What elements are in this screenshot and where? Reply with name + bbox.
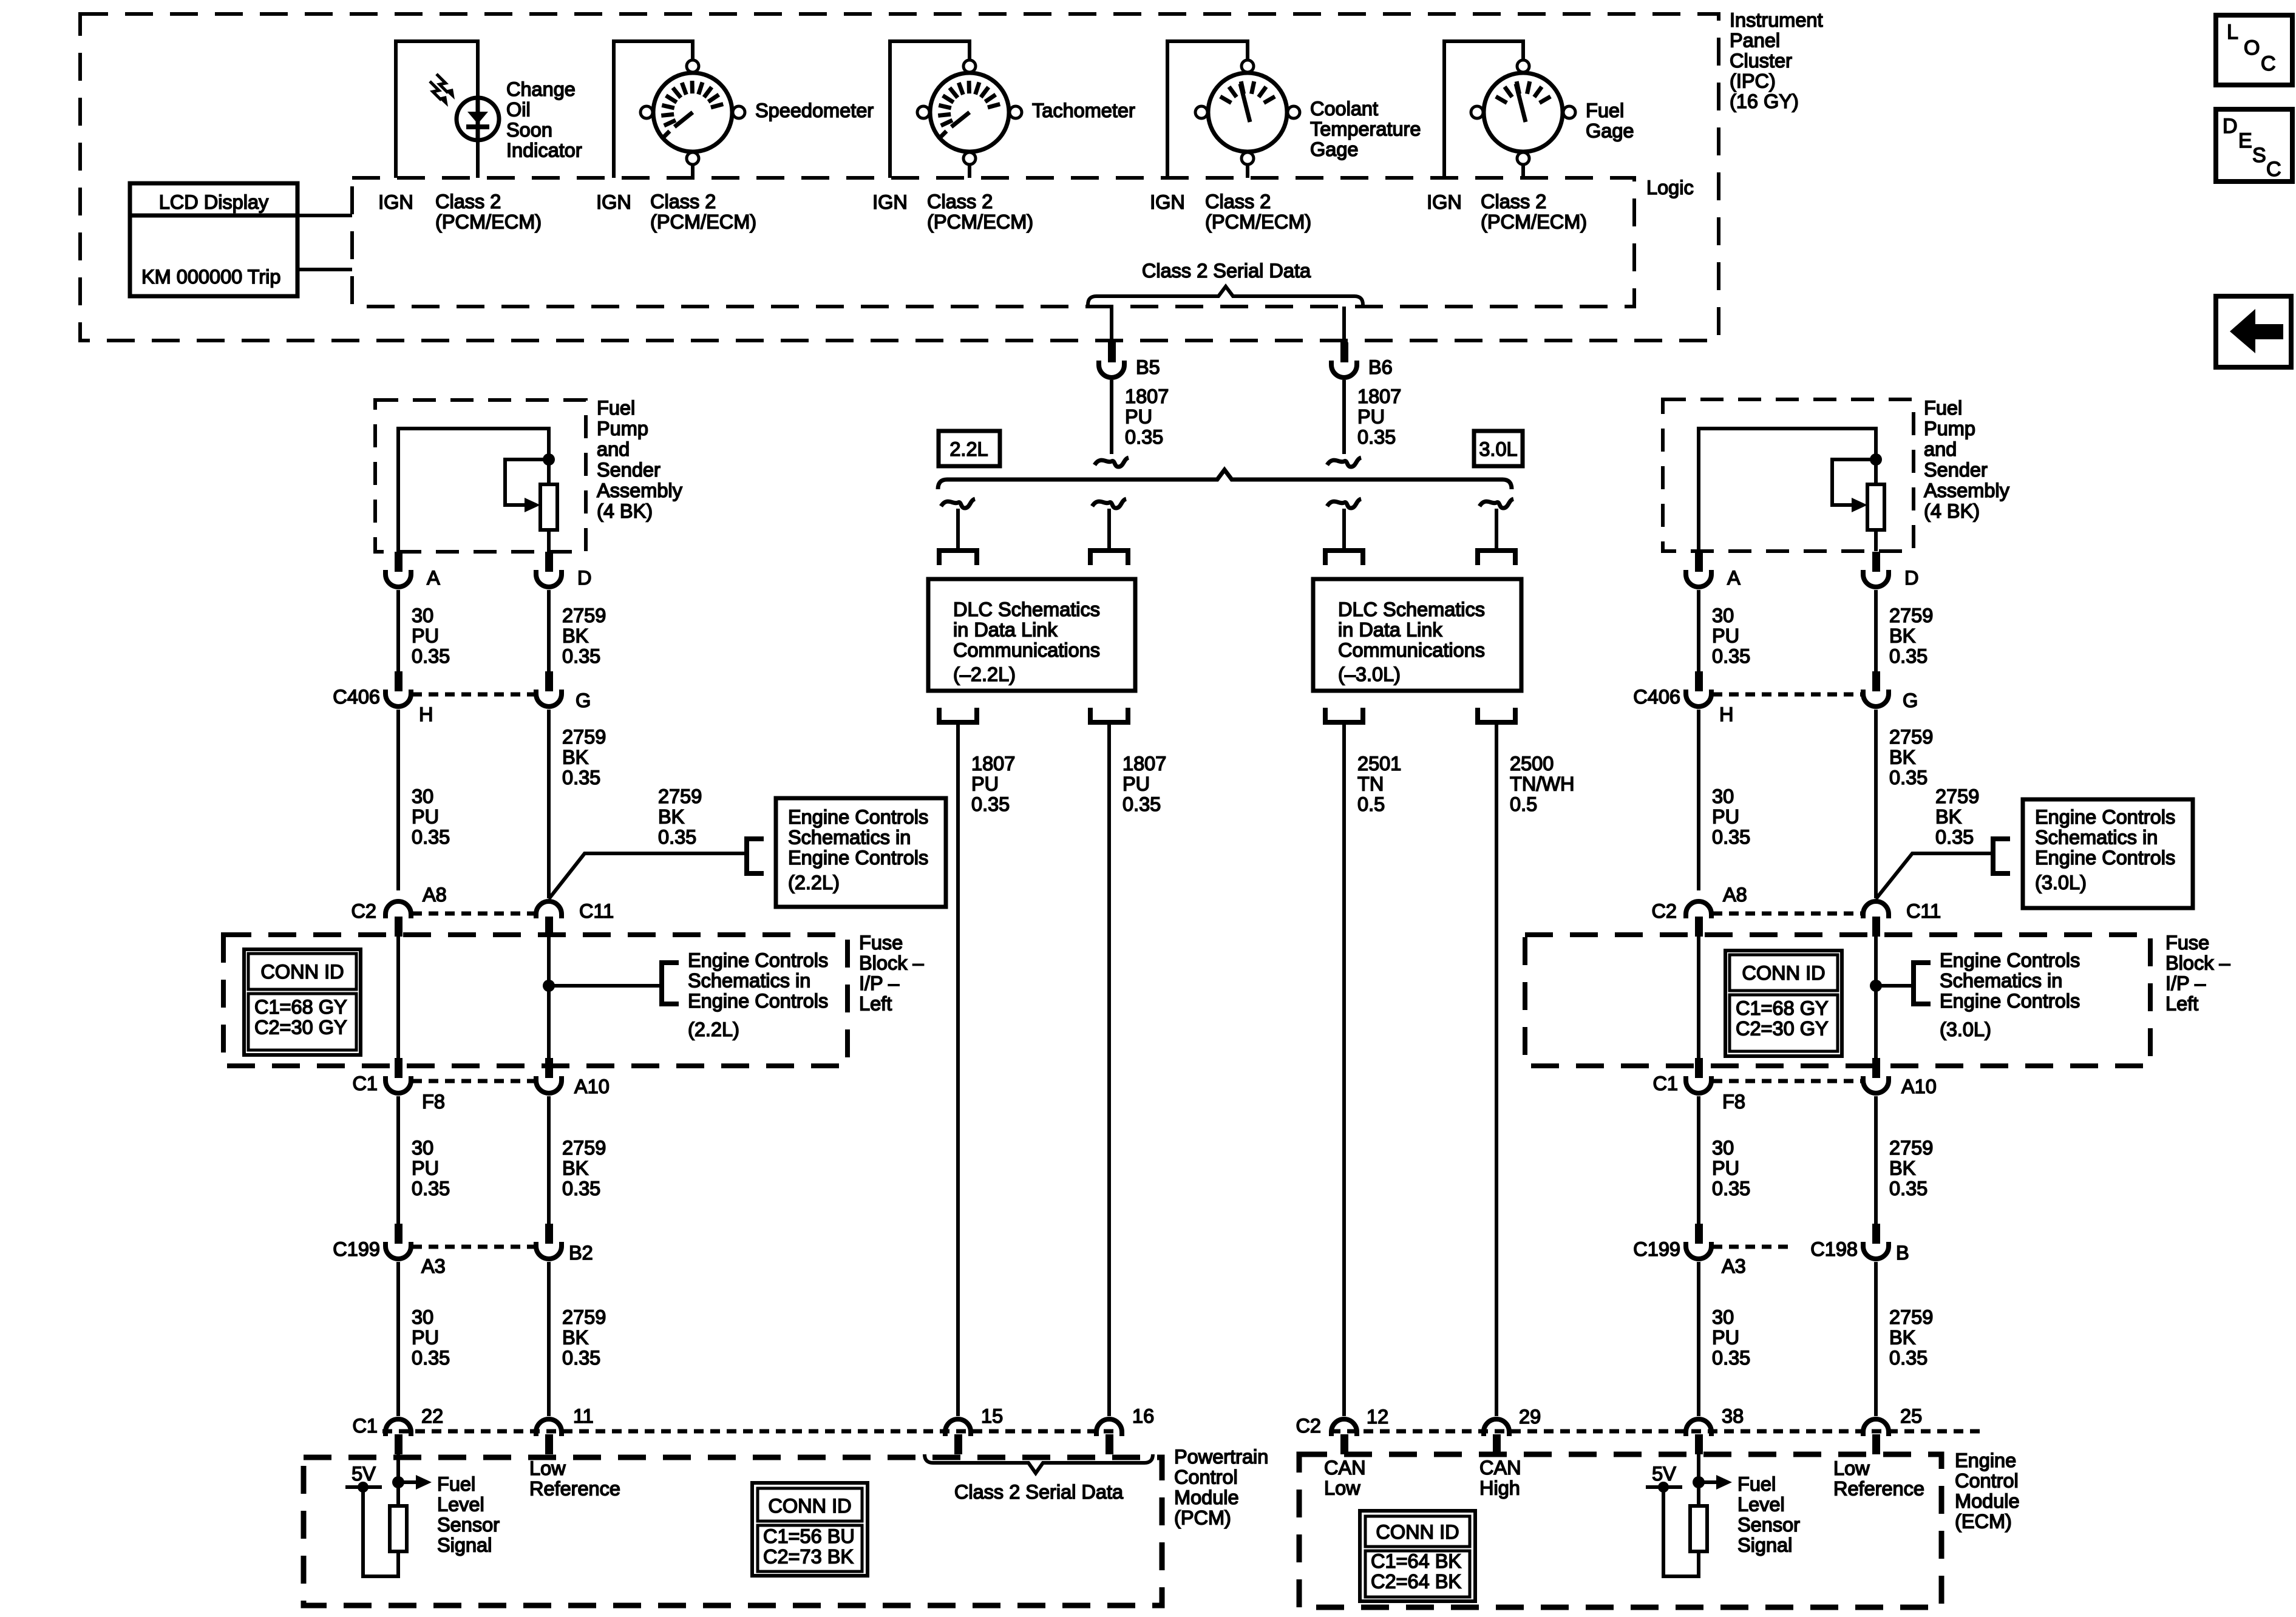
splice squiggle below B5 bbox=[1095, 458, 1129, 467]
svg-text:11: 11 bbox=[573, 1405, 594, 1427]
svg-text:IGN: IGN bbox=[1427, 191, 1462, 213]
svg-text:30: 30 bbox=[1712, 1137, 1734, 1159]
svg-text:BK: BK bbox=[562, 625, 589, 647]
wire 30 PU 0.35 (F8 to C199) bbox=[1697, 1096, 1700, 1224]
svg-text:Engine Controls: Engine Controls bbox=[688, 949, 828, 971]
junction dot to engine controls schematics bbox=[1870, 980, 1882, 992]
wire 30 PU 0.35 (A3 to module) bbox=[1697, 1262, 1700, 1416]
svg-text:(ECM): (ECM) bbox=[1955, 1511, 2012, 1533]
svg-text:Pump: Pump bbox=[1924, 418, 1975, 439]
wire squiggle to DLC bracket (CAN high) bbox=[1495, 509, 1498, 549]
svg-text:D: D bbox=[1904, 567, 1918, 589]
svg-text:(PCM/ECM): (PCM/ECM) bbox=[927, 211, 1033, 233]
fine dashed connector line at PCM pins bbox=[382, 1429, 1123, 1434]
svg-text:C2=30 GY: C2=30 GY bbox=[254, 1017, 347, 1039]
wire 2759 BK 0.35 (G to C11) bbox=[547, 710, 551, 898]
svg-text:C1=64 BK: C1=64 BK bbox=[1371, 1550, 1461, 1572]
svg-text:Engine Controls: Engine Controls bbox=[2035, 806, 2175, 828]
svg-text:C198: C198 bbox=[1810, 1238, 1858, 1260]
connector C1 pin A10 bbox=[545, 1058, 553, 1078]
svg-text:Class 2: Class 2 bbox=[435, 191, 501, 212]
svg-text:Schematics in: Schematics in bbox=[788, 827, 911, 849]
svg-text:PU: PU bbox=[1712, 1327, 1739, 1349]
svg-text:BK: BK bbox=[1889, 1327, 1916, 1349]
svg-text:H: H bbox=[1719, 703, 1733, 725]
back arrow box bbox=[2216, 296, 2291, 367]
Fuse Block - I/P - Left dashed box bbox=[1525, 935, 2150, 1066]
svg-text:Assembly: Assembly bbox=[1924, 480, 2010, 501]
wire 30 PU 0.35 (H to C2) bbox=[396, 710, 400, 890]
svg-text:Sensor: Sensor bbox=[437, 1514, 500, 1536]
wire IGN loop for speedometer bbox=[612, 41, 616, 178]
CONN ID box (fuse block) bbox=[1725, 951, 1842, 1056]
wire 1807 PU 0.35 from B5 bbox=[1110, 380, 1113, 454]
svg-text:Engine Controls: Engine Controls bbox=[688, 990, 828, 1012]
svg-text:A3: A3 bbox=[1722, 1255, 1746, 1277]
svg-text:(PCM/ECM): (PCM/ECM) bbox=[650, 211, 756, 233]
svg-text:12: 12 bbox=[1367, 1406, 1388, 1428]
svg-text:BK: BK bbox=[562, 1327, 589, 1349]
Fuse Block - I/P - Left dashed box bbox=[223, 935, 847, 1066]
svg-text:Left: Left bbox=[2165, 993, 2198, 1015]
connector C2 pin C11 bbox=[545, 917, 553, 937]
wire squiggle to DLC bracket (class 2 serial data (16)) bbox=[1107, 509, 1111, 549]
wire from fuel gage bottom bbox=[1521, 164, 1525, 178]
svg-text:I/P –: I/P – bbox=[859, 972, 900, 994]
sender potentiometer bbox=[1867, 484, 1884, 530]
wire squiggle to DLC bracket (class 2 serial data (15)) bbox=[956, 509, 960, 549]
svg-text:CONN ID: CONN ID bbox=[1376, 1521, 1459, 1543]
Fuel Pump and Sender Assembly dashed box bbox=[375, 400, 586, 552]
svg-text:Fuel: Fuel bbox=[1586, 100, 1624, 121]
junction dot to engine controls schematics bbox=[543, 980, 555, 992]
wire 2759 BK 0.35 (G to C11) bbox=[1874, 710, 1878, 898]
svg-text:C1: C1 bbox=[352, 1073, 378, 1094]
svg-text:1807: 1807 bbox=[971, 753, 1015, 775]
5V supply rail bbox=[1646, 1485, 1682, 1489]
svg-text:0.35: 0.35 bbox=[1357, 426, 1396, 448]
wire IGN loop for coolant temperature gage bbox=[1166, 41, 1169, 178]
wire 30 PU 0.35 (F8 to C199) bbox=[396, 1096, 400, 1224]
splice squiggle column class 2 serial data (16) bbox=[1092, 499, 1126, 508]
connector C199 dashed line bbox=[1713, 1245, 1792, 1249]
svg-text:25: 25 bbox=[1900, 1405, 1922, 1427]
svg-text:Engine Controls: Engine Controls bbox=[2035, 847, 2175, 869]
svg-text:C11: C11 bbox=[1906, 900, 1941, 922]
svg-text:29: 29 bbox=[1519, 1406, 1541, 1428]
svg-text:0.35: 0.35 bbox=[1125, 426, 1163, 448]
wire 30 PU 0.35 (A3 to module) bbox=[396, 1262, 400, 1416]
svg-text:TN/WH: TN/WH bbox=[1510, 773, 1575, 795]
wire 1807 PU 0.35 to module (class 2 serial data (16)) bbox=[1107, 722, 1111, 1416]
svg-text:0.35: 0.35 bbox=[412, 645, 450, 667]
wire 2500 TN/WH 0.5 to module (CAN high) bbox=[1495, 722, 1498, 1416]
svg-text:0.35: 0.35 bbox=[412, 1347, 450, 1369]
svg-text:0.5: 0.5 bbox=[1510, 793, 1537, 815]
connector C406 dashed line bbox=[1713, 693, 1862, 697]
svg-text:(PCM): (PCM) bbox=[1174, 1507, 1231, 1529]
svg-text:BK: BK bbox=[562, 747, 589, 768]
svg-text:B5: B5 bbox=[1136, 356, 1160, 378]
svg-text:Fuse: Fuse bbox=[859, 932, 903, 954]
svg-text:PU: PU bbox=[1123, 773, 1150, 795]
wire resistor return loop to 5V bbox=[363, 1487, 398, 1576]
splice squiggle column CAN high bbox=[1479, 499, 1513, 508]
svg-text:(2.2L): (2.2L) bbox=[688, 1019, 739, 1040]
svg-text:B: B bbox=[1896, 1242, 1909, 1264]
bracket to Engine Controls label (fuse block) bbox=[1914, 963, 1931, 1004]
connector C1 pin A10 bbox=[1872, 1058, 1880, 1078]
svg-text:PU: PU bbox=[1712, 806, 1739, 828]
svg-text:Sensor: Sensor bbox=[1737, 1514, 1800, 1536]
bracket into DLC box (class 2 serial data (16)) bbox=[1090, 551, 1128, 565]
svg-text:0.35: 0.35 bbox=[1889, 1347, 1927, 1369]
wire inside fuel pump assembly bbox=[1697, 429, 1700, 551]
svg-text:Tachometer: Tachometer bbox=[1032, 100, 1135, 121]
svg-text:Sender: Sender bbox=[597, 459, 661, 481]
bracket to Engine Controls label (fuse block) bbox=[662, 963, 679, 1004]
svg-text:BK: BK bbox=[1935, 806, 1962, 828]
wire to tachometer top bbox=[968, 41, 971, 60]
bracket into DLC box (CAN high) bbox=[1478, 551, 1515, 565]
svg-text:Engine Controls: Engine Controls bbox=[788, 847, 928, 869]
svg-text:C1: C1 bbox=[352, 1415, 378, 1437]
CONN ID box (PCM) bbox=[752, 1483, 868, 1576]
svg-text:PU: PU bbox=[1712, 1158, 1739, 1179]
svg-text:C1=68 GY: C1=68 GY bbox=[254, 996, 347, 1018]
connector pin A bbox=[395, 552, 402, 572]
svg-text:1807: 1807 bbox=[1123, 753, 1166, 775]
wire below potentiometer bbox=[547, 530, 551, 552]
arrow fuel level sensor signal bbox=[1699, 1480, 1719, 1484]
module pin 22 bbox=[395, 1434, 402, 1454]
sender potentiometer bbox=[540, 484, 557, 530]
svg-text:PU: PU bbox=[1125, 406, 1152, 428]
svg-text:1807: 1807 bbox=[1125, 385, 1169, 407]
svg-text:Sender: Sender bbox=[1924, 459, 1988, 481]
svg-text:2759: 2759 bbox=[562, 1137, 606, 1159]
engine variant box 2.2L bbox=[939, 431, 1000, 466]
svg-text:Control: Control bbox=[1955, 1470, 2019, 1492]
wire LCD to logic box (lower) bbox=[297, 268, 352, 271]
svg-text:BK: BK bbox=[1889, 1158, 1916, 1179]
sender wiper loop and arrow bbox=[505, 459, 549, 505]
svg-text:Schematics in: Schematics in bbox=[2035, 827, 2158, 849]
connector C199 pin A3 bbox=[395, 1224, 402, 1244]
svg-text:Soon: Soon bbox=[506, 119, 552, 141]
svg-text:0.35: 0.35 bbox=[412, 1178, 450, 1199]
connector C2 pin C11 bbox=[1872, 917, 1880, 937]
svg-text:0.35: 0.35 bbox=[1889, 645, 1927, 667]
svg-text:C11: C11 bbox=[579, 900, 614, 922]
svg-text:Signal: Signal bbox=[437, 1534, 492, 1556]
svg-text:0.35: 0.35 bbox=[562, 1178, 600, 1199]
connector C1 pin F8 bbox=[1695, 1058, 1703, 1078]
svg-text:Reference: Reference bbox=[1833, 1478, 1924, 1500]
svg-text:Panel: Panel bbox=[1730, 30, 1780, 52]
svg-text:PU: PU bbox=[1712, 625, 1739, 647]
svg-text:0.35: 0.35 bbox=[1123, 793, 1161, 815]
bracket below DLC box (class 2 serial data (16)) bbox=[1090, 708, 1128, 722]
module pin 16 (PCM) bbox=[1106, 1434, 1113, 1454]
module pin 38 bbox=[1695, 1434, 1703, 1454]
gauge speedometer bbox=[653, 73, 732, 152]
connector pin D bbox=[1872, 552, 1880, 572]
fine dashed connector line at ECM pins bbox=[1331, 1429, 1985, 1434]
svg-text:Pump: Pump bbox=[597, 418, 648, 439]
svg-text:C2=30 GY: C2=30 GY bbox=[1736, 1018, 1829, 1040]
svg-text:DLC Schematics: DLC Schematics bbox=[953, 598, 1100, 620]
svg-text:C: C bbox=[2266, 158, 2281, 181]
svg-text:O: O bbox=[2244, 36, 2260, 59]
svg-text:D: D bbox=[2223, 115, 2238, 138]
svg-text:C1=68 GY: C1=68 GY bbox=[1736, 997, 1829, 1019]
svg-text:TN: TN bbox=[1357, 773, 1384, 795]
svg-text:22: 22 bbox=[421, 1405, 443, 1427]
wire through fuse block (signal) bbox=[396, 937, 400, 1062]
svg-text:IGN: IGN bbox=[872, 191, 908, 213]
DLC Schematics box (-2.2L) bbox=[928, 579, 1135, 691]
svg-text:Communications: Communications bbox=[1338, 639, 1485, 661]
svg-text:0.35: 0.35 bbox=[658, 826, 696, 848]
svg-text:LCD Display: LCD Display bbox=[159, 191, 269, 213]
splice squiggle column CAN low bbox=[1327, 499, 1361, 508]
svg-text:C2: C2 bbox=[351, 900, 376, 922]
wire IGN loop for tachometer bbox=[888, 41, 892, 178]
svg-text:A8: A8 bbox=[1723, 884, 1747, 906]
svg-text:(PCM/ECM): (PCM/ECM) bbox=[435, 211, 542, 233]
sensor resistor bbox=[1690, 1506, 1707, 1551]
wire 30 PU 0.35 (A to C406) bbox=[396, 590, 400, 671]
diagonal branch wire 2759 BK 0.35 to Engine Controls bbox=[1876, 853, 1993, 899]
connector C406 pin G bbox=[545, 671, 553, 691]
svg-text:I/P –: I/P – bbox=[2165, 972, 2206, 994]
bus brace (serial data bus) bbox=[938, 470, 1512, 489]
wire 2759 BK 0.35 (to module) bbox=[547, 1262, 551, 1416]
svg-text:Assembly: Assembly bbox=[597, 480, 683, 501]
svg-text:C: C bbox=[2261, 52, 2276, 75]
wire from speedometer bottom bbox=[691, 164, 695, 178]
Fuel Pump and Sender Assembly dashed box bbox=[1663, 399, 1914, 551]
svg-text:F8: F8 bbox=[1722, 1091, 1745, 1113]
wire 1807 PU 0.35 from B6 bbox=[1342, 380, 1346, 454]
svg-text:PU: PU bbox=[971, 773, 999, 795]
svg-text:Reference: Reference bbox=[529, 1478, 620, 1500]
connector C1 dashed line bbox=[412, 1079, 535, 1083]
svg-text:Engine Controls: Engine Controls bbox=[788, 806, 928, 828]
svg-text:(16 GY): (16 GY) bbox=[1730, 90, 1799, 112]
svg-text:B2: B2 bbox=[569, 1242, 593, 1264]
wire below potentiometer bbox=[1874, 530, 1878, 551]
wire pin to fuel level sensor node bbox=[396, 1454, 400, 1506]
svg-text:2759: 2759 bbox=[1935, 785, 1979, 807]
svg-text:PU: PU bbox=[412, 1327, 439, 1349]
LCD Display box bbox=[130, 183, 297, 296]
connector C199 pin A3 bbox=[1695, 1224, 1703, 1244]
gauge fuel gage bbox=[1484, 73, 1563, 152]
connector C406 dashed line bbox=[412, 693, 535, 697]
svg-text:Fuel: Fuel bbox=[1737, 1473, 1776, 1495]
wire squiggle to DLC bracket (CAN low) bbox=[1342, 509, 1346, 549]
module pin 25 bbox=[1872, 1434, 1880, 1454]
connector C406 pin H bbox=[1695, 671, 1703, 691]
svg-text:Instrument: Instrument bbox=[1730, 9, 1823, 31]
wire 30 PU 0.35 (A to C406) bbox=[1697, 590, 1700, 671]
svg-text:Cluster: Cluster bbox=[1730, 50, 1792, 72]
svg-text:H: H bbox=[419, 703, 433, 725]
svg-text:A10: A10 bbox=[574, 1076, 610, 1097]
svg-text:Engine Controls: Engine Controls bbox=[1940, 949, 2080, 971]
Powertrain Control Module (PCM) dashed box bbox=[304, 1457, 1162, 1605]
connector pin B2 bbox=[545, 1224, 553, 1244]
sender wiper loop and arrow bbox=[1832, 459, 1876, 505]
svg-text:C1=56 BU: C1=56 BU bbox=[763, 1525, 855, 1547]
svg-text:and: and bbox=[1924, 438, 1957, 460]
svg-text:2.2L: 2.2L bbox=[949, 438, 988, 460]
connector C406 pin G bbox=[1872, 671, 1880, 691]
svg-text:Module: Module bbox=[1174, 1486, 1239, 1508]
svg-text:IGN: IGN bbox=[596, 191, 631, 213]
svg-text:(4 BK): (4 BK) bbox=[1924, 500, 1980, 522]
svg-text:Level: Level bbox=[1737, 1494, 1785, 1516]
svg-text:Fuse: Fuse bbox=[2165, 932, 2209, 954]
connector pin D bbox=[545, 552, 553, 572]
DLC Schematics box (-3.0L) bbox=[1313, 579, 1521, 691]
connector pin B5 bbox=[1108, 342, 1116, 362]
svg-text:5V: 5V bbox=[1652, 1463, 1676, 1485]
svg-text:1807: 1807 bbox=[1357, 385, 1401, 407]
connector C1 dashed line bbox=[1713, 1079, 1862, 1083]
svg-text:Schematics in: Schematics in bbox=[1940, 970, 2062, 992]
wire from coolant temperature gage bottom bbox=[1246, 164, 1249, 178]
bracket to Engine Controls Schematics box bbox=[747, 839, 764, 873]
svg-text:A: A bbox=[427, 567, 440, 589]
svg-text:(–3.0L): (–3.0L) bbox=[1338, 663, 1401, 685]
svg-text:(2.2L): (2.2L) bbox=[788, 872, 840, 893]
svg-text:Class 2: Class 2 bbox=[1481, 191, 1546, 212]
svg-text:Logic: Logic bbox=[1646, 177, 1694, 198]
svg-text:2501: 2501 bbox=[1357, 753, 1401, 775]
svg-text:CONN ID: CONN ID bbox=[260, 961, 344, 983]
bracket to Engine Controls Schematics box bbox=[1993, 839, 2010, 873]
svg-text:2759: 2759 bbox=[562, 605, 606, 626]
connector C2 pin A8 bbox=[395, 917, 402, 937]
wire to coolant temperature gage top bbox=[1246, 41, 1249, 60]
svg-text:0.35: 0.35 bbox=[1889, 1178, 1927, 1199]
Logic dashed box inside IPC bbox=[352, 178, 1634, 307]
DESC reference box bbox=[2216, 109, 2292, 181]
svg-text:15: 15 bbox=[981, 1405, 1003, 1427]
svg-text:0.35: 0.35 bbox=[562, 645, 600, 667]
svg-text:Class 2: Class 2 bbox=[1205, 191, 1271, 212]
svg-text:Change: Change bbox=[506, 78, 576, 100]
svg-text:Gage: Gage bbox=[1586, 120, 1634, 142]
module pin 11 bbox=[545, 1434, 553, 1454]
svg-text:(PCM/ECM): (PCM/ECM) bbox=[1481, 211, 1587, 233]
wire 2759 BK 0.35 (to module) bbox=[1874, 1262, 1878, 1416]
svg-text:Speedometer: Speedometer bbox=[755, 100, 874, 121]
svg-text:0.5: 0.5 bbox=[1357, 793, 1385, 815]
wire 30 PU 0.35 (H to C2) bbox=[1697, 710, 1700, 890]
svg-text:BK: BK bbox=[1889, 747, 1916, 768]
svg-text:30: 30 bbox=[412, 605, 433, 626]
engine variant box 3.0L bbox=[1474, 431, 1523, 466]
svg-text:Low: Low bbox=[1833, 1457, 1870, 1479]
svg-text:(3.0L): (3.0L) bbox=[2035, 872, 2087, 893]
wire to fuel gage top bbox=[1521, 41, 1525, 60]
svg-text:Class 2 Serial Data: Class 2 Serial Data bbox=[1142, 260, 1311, 282]
svg-text:CONN ID: CONN ID bbox=[1742, 962, 1825, 984]
svg-text:D: D bbox=[577, 567, 591, 589]
svg-text:0.35: 0.35 bbox=[1935, 826, 1974, 848]
svg-text:2759: 2759 bbox=[658, 785, 702, 807]
svg-text:Powertrain: Powertrain bbox=[1174, 1446, 1268, 1468]
svg-text:2500: 2500 bbox=[1510, 753, 1554, 775]
wire through fuse block (ground) bbox=[1874, 937, 1878, 1062]
wire resistor return loop to 5V bbox=[1663, 1487, 1699, 1576]
svg-text:0.35: 0.35 bbox=[971, 793, 1010, 815]
svg-text:(4 BK): (4 BK) bbox=[597, 500, 653, 522]
svg-text:C2=64 BK: C2=64 BK bbox=[1371, 1571, 1461, 1593]
svg-text:Communications: Communications bbox=[953, 639, 1100, 661]
connector C406 pin H bbox=[395, 671, 402, 691]
svg-text:3.0L: 3.0L bbox=[1479, 438, 1517, 460]
svg-text:0.35: 0.35 bbox=[1712, 1178, 1750, 1199]
svg-text:C2=73 BK: C2=73 BK bbox=[763, 1546, 854, 1568]
svg-text:A10: A10 bbox=[1901, 1076, 1937, 1097]
svg-text:Engine Controls: Engine Controls bbox=[1940, 990, 2080, 1012]
CAN pins C2/12 and 29 (ECM) bbox=[1340, 1434, 1348, 1454]
svg-text:G: G bbox=[1903, 690, 1918, 711]
svg-text:High: High bbox=[1479, 1477, 1520, 1499]
splice squiggle column class 2 serial data (15) bbox=[941, 499, 975, 508]
connector C2 dashed line bbox=[412, 912, 535, 916]
wire LCD to logic box (upper) bbox=[297, 214, 352, 217]
svg-text:5V: 5V bbox=[352, 1463, 376, 1485]
Engine Controls Schematics box bbox=[776, 798, 946, 907]
svg-text:2759: 2759 bbox=[1889, 1137, 1933, 1159]
svg-text:(–2.2L): (–2.2L) bbox=[953, 663, 1016, 685]
svg-text:2759: 2759 bbox=[1889, 1306, 1933, 1328]
branch wire to bracket bbox=[1876, 984, 1914, 988]
svg-text:L: L bbox=[2227, 21, 2238, 44]
svg-text:(3.0L): (3.0L) bbox=[1940, 1019, 1991, 1040]
bracket below DLC box (class 2 serial data (15)) bbox=[939, 708, 977, 722]
svg-text:Class 2: Class 2 bbox=[650, 191, 716, 212]
svg-text:(IPC): (IPC) bbox=[1730, 70, 1776, 92]
5V supply rail bbox=[345, 1485, 382, 1489]
svg-text:CONN ID: CONN ID bbox=[768, 1495, 851, 1517]
svg-text:BK: BK bbox=[658, 806, 685, 828]
svg-text:0.35: 0.35 bbox=[562, 767, 600, 788]
svg-text:(PCM/ECM): (PCM/ECM) bbox=[1205, 211, 1311, 233]
svg-text:30: 30 bbox=[1712, 1306, 1734, 1328]
svg-text:2759: 2759 bbox=[1889, 605, 1933, 626]
CONN ID box (ECM) bbox=[1360, 1511, 1475, 1601]
LED lamp - change oil soon indicator bbox=[457, 98, 499, 140]
svg-text:Engine: Engine bbox=[1955, 1449, 2016, 1471]
wire through fuse block (ground) bbox=[547, 937, 551, 1062]
wire IPC to pin B5 bbox=[1110, 307, 1113, 344]
svg-text:CAN: CAN bbox=[1324, 1457, 1366, 1479]
svg-text:Indicator: Indicator bbox=[506, 140, 582, 161]
svg-text:0.35: 0.35 bbox=[412, 826, 450, 848]
connector C2 dashed line bbox=[1713, 912, 1862, 916]
svg-text:CAN: CAN bbox=[1479, 1457, 1521, 1479]
svg-text:Block –: Block – bbox=[2165, 952, 2231, 974]
svg-text:Low: Low bbox=[1324, 1477, 1360, 1499]
svg-text:Block –: Block – bbox=[859, 952, 925, 974]
